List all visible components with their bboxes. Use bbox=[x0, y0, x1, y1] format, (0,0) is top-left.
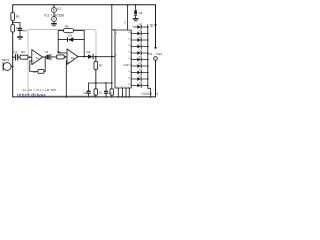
node A1out bbox=[44, 56, 46, 58]
svg-text:D1: D1 bbox=[68, 33, 72, 37]
wire R4 to output bbox=[44, 57, 45, 72]
wire A2 out bbox=[78, 56, 88, 58]
node A2plus gnd bbox=[66, 96, 68, 98]
LED cathode rail bbox=[148, 25, 151, 97]
feedback resistor R6 bbox=[58, 30, 63, 32]
svg-text:8: 8 bbox=[121, 86, 122, 88]
battery terminal bbox=[154, 57, 158, 61]
capacitor C7 bbox=[105, 83, 107, 91]
wire C3 to R5 bbox=[51, 56, 57, 58]
svg-text:C7: C7 bbox=[109, 91, 113, 95]
section box (grey, input driver) bbox=[28, 30, 96, 97]
svg-text:IC2: IC2 bbox=[124, 63, 129, 67]
node A2 in bbox=[65, 56, 67, 58]
node mic junction bbox=[12, 66, 14, 68]
svg-text:R2: R2 bbox=[33, 70, 37, 74]
wire down from node sig bbox=[111, 57, 113, 83]
svg-text:A2: A2 bbox=[71, 56, 75, 60]
svg-text:input driver: input driver bbox=[17, 92, 47, 97]
node rail top dot bbox=[111, 4, 113, 6]
node sig/v bbox=[111, 56, 113, 58]
left rail bbox=[12, 5, 14, 97]
ground (C8) bbox=[133, 18, 137, 20]
terminal dot + bbox=[154, 47, 156, 49]
svg-text:IC1: IC1 bbox=[57, 7, 62, 11]
resistor R2 bbox=[11, 25, 15, 33]
svg-text:1k: 1k bbox=[99, 91, 103, 95]
svg-text:2: 2 bbox=[117, 86, 118, 88]
V+ wire to IC2 bbox=[112, 5, 115, 57]
IC2 box bbox=[115, 30, 131, 88]
diode D2 (detector) bbox=[88, 54, 93, 59]
labels bbox=[2, 7, 162, 98]
capacitor C3 bbox=[46, 55, 48, 60]
top supply rail bbox=[13, 4, 155, 6]
bottom node wire bbox=[89, 82, 112, 84]
node bias junction bbox=[12, 22, 14, 24]
ground (C2) bbox=[18, 36, 23, 38]
svg-text:C8: C8 bbox=[139, 11, 143, 15]
svg-text:8: 8 bbox=[53, 8, 55, 12]
ground (IC1) bbox=[52, 23, 56, 25]
feedback diode D1 bbox=[58, 39, 67, 41]
wire C2 to ground bbox=[19, 31, 21, 36]
A2 + input down wire bbox=[65, 61, 68, 97]
node A1 input junction bbox=[29, 56, 31, 58]
wire rail to C1 bbox=[13, 56, 16, 58]
svg-text:+: + bbox=[32, 59, 34, 63]
bottom rail bbox=[13, 96, 156, 98]
feedback right vertical bbox=[83, 31, 85, 57]
LED D6 pin 14 bbox=[128, 56, 148, 61]
LED D5 pin 15 bbox=[128, 50, 148, 55]
LED D8 pin 12 bbox=[128, 69, 148, 74]
svg-text:014034 - 11: 014034 - 11 bbox=[142, 92, 159, 96]
svg-text:C6: C6 bbox=[84, 91, 88, 95]
IC2 pin9 wire bbox=[127, 5, 129, 30]
wire node bias to C2 bbox=[13, 23, 20, 29]
resistor R8 bbox=[95, 83, 97, 89]
svg-text:9 V: 9 V bbox=[150, 23, 157, 28]
svg-text:R7: R7 bbox=[99, 64, 103, 68]
feedback left vertical bbox=[58, 31, 67, 53]
resistor R5 bbox=[57, 55, 65, 59]
right supply rail lower bbox=[155, 60, 157, 97]
svg-text:R4: R4 bbox=[57, 50, 61, 54]
capacitor C2 bbox=[18, 28, 22, 30]
microphone MIC1 bbox=[3, 63, 11, 71]
svg-text:+: + bbox=[68, 60, 70, 64]
svg-text:MIC1: MIC1 bbox=[2, 58, 9, 62]
resistor R1 bbox=[11, 13, 15, 21]
capacitor C6 bbox=[88, 83, 90, 91]
svg-text:D1 ... D10: D1 ... D10 bbox=[149, 52, 163, 56]
LED D10 pin 10 bbox=[128, 82, 148, 87]
svg-text:C3: C3 bbox=[45, 50, 49, 54]
wire R5 to A2 bbox=[64, 56, 67, 58]
svg-text:R5: R5 bbox=[65, 25, 69, 29]
LED D4 pin 16 bbox=[128, 43, 148, 48]
node det bbox=[95, 56, 97, 58]
svg-text:C1: C1 bbox=[14, 50, 18, 54]
LEDs D1..D10 bbox=[128, 24, 148, 88]
IC2 bottom pins bbox=[118, 88, 129, 97]
decoupling cap C8 bbox=[135, 5, 137, 10]
resistor R4 (A1 feedback) bbox=[38, 70, 44, 74]
wire R3 to A1 bbox=[28, 56, 32, 58]
IC1 supply pin 4 bbox=[53, 13, 55, 17]
svg-text:4u7: 4u7 bbox=[23, 29, 28, 33]
LED D3 pin 17 bbox=[128, 37, 148, 42]
LED D7 pin 13 bbox=[128, 63, 148, 68]
node R9 top junction bbox=[111, 82, 113, 84]
svg-text:R3: R3 bbox=[21, 50, 25, 54]
op-amp A2 bbox=[67, 49, 78, 65]
wire mic to rail bbox=[11, 66, 13, 68]
wire C1 to R3 bbox=[18, 56, 20, 58]
node fb tap bbox=[83, 56, 85, 58]
node R8 gnd bbox=[95, 96, 97, 98]
svg-text:-: - bbox=[33, 53, 34, 57]
svg-text:-: - bbox=[68, 52, 69, 56]
svg-text:7: 7 bbox=[128, 86, 129, 88]
wire A1 out bbox=[43, 56, 46, 58]
resistor R9 bbox=[111, 83, 113, 89]
svg-text:R1: R1 bbox=[16, 15, 20, 19]
resistor R3 bbox=[20, 55, 28, 59]
svg-text:D2: D2 bbox=[87, 50, 91, 54]
A1 feedback: + input down bbox=[30, 61, 38, 72]
LED D2 pin 18 bbox=[128, 30, 148, 35]
LED D9 pin 11 bbox=[128, 76, 148, 81]
op-amp A1 bbox=[32, 50, 43, 65]
svg-text:6: 6 bbox=[124, 86, 125, 88]
IC1 supply pin 8 bbox=[53, 4, 55, 6]
node R7 bottom bbox=[95, 82, 97, 84]
node C1 input junction bbox=[12, 56, 14, 58]
svg-text:R2: R2 bbox=[16, 27, 20, 31]
svg-text:4: 4 bbox=[53, 17, 55, 21]
wire D2 to IC2 bbox=[93, 56, 115, 58]
right supply rail upper bbox=[155, 5, 157, 48]
LED D1 pin 1 bbox=[132, 24, 149, 29]
detector resistor R7 bbox=[95, 57, 97, 62]
capacitor C1 bbox=[16, 54, 18, 60]
svg-text:A1, A2 = IC1 = LM 358: A1, A2 = IC1 = LM 358 bbox=[23, 88, 56, 92]
svg-text:A1: A1 bbox=[36, 56, 40, 60]
